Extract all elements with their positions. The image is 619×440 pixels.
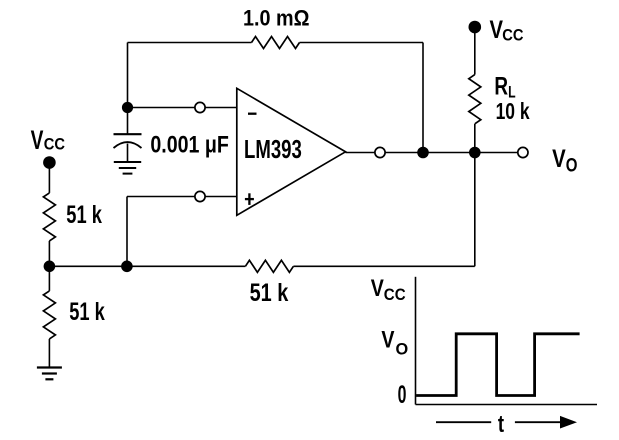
wire top feedback left segment — [128, 42, 252, 44]
minus sign inverting pin — [248, 113, 257, 115]
svg-text:51 k: 51 k — [66, 201, 102, 229]
node C junction dot — [121, 261, 133, 273]
svg-text:O: O — [566, 156, 578, 177]
node A junction dot — [122, 102, 133, 113]
svg-text:51 k: 51 k — [250, 279, 289, 307]
ref label RL — [494, 72, 515, 101]
wire inverting input — [128, 107, 237, 109]
terminal open circle inverting input — [195, 102, 205, 112]
wire right vertical up to output — [474, 153, 476, 267]
wire R2 to node B — [48, 241, 50, 266]
ground below capacitor — [114, 162, 141, 174]
wire RL to output node — [474, 124, 476, 153]
wire non-inverting input — [127, 196, 237, 198]
power VCC right — [469, 16, 524, 45]
ground below R3 — [37, 368, 62, 380]
resistor RL 10 k — [469, 75, 481, 124]
wire top feedback right segment — [300, 42, 424, 44]
capacitor C1 0.001 uF — [114, 134, 142, 161]
time axis left line — [436, 421, 491, 423]
svg-text:V: V — [490, 16, 504, 44]
wire node A to capacitor — [127, 108, 129, 134]
resistor R1 1.0 mOhm feedback — [252, 37, 300, 49]
svg-text:51 k: 51 k — [69, 298, 105, 326]
svg-text:V: V — [31, 125, 44, 155]
svg-text:t: t — [498, 411, 504, 438]
svg-text:1.0 mΩ: 1.0 mΩ — [243, 6, 310, 31]
plus sign non-inverting pin — [245, 193, 254, 205]
graph axis label VCC — [371, 275, 406, 304]
power VCC left — [31, 125, 65, 169]
wire output — [346, 152, 523, 154]
svg-text:V: V — [552, 145, 566, 173]
wire feedback vertical drop — [422, 43, 424, 153]
time axis arrow — [515, 416, 577, 429]
resistor R2 51 k upper — [43, 193, 55, 241]
node D feedback junction dot — [417, 147, 429, 159]
wire R3 to ground — [48, 339, 50, 367]
resistor R3 51 k lower — [43, 291, 55, 339]
svg-text:CC: CC — [502, 26, 523, 45]
graph x-axis — [416, 404, 598, 406]
svg-text:CC: CC — [384, 285, 406, 304]
wire bottom rail left segment — [49, 265, 245, 267]
waveform square wave — [416, 334, 579, 396]
svg-text:CC: CC — [44, 135, 65, 154]
net label VO — [552, 145, 577, 176]
svg-text:V: V — [371, 275, 384, 302]
svg-text:0: 0 — [398, 381, 407, 409]
wire node B to R3 — [48, 266, 50, 291]
svg-text:R: R — [494, 72, 508, 100]
svg-text:O: O — [396, 340, 409, 359]
node E output junction dot — [469, 147, 481, 159]
op-amp U1 LM393 — [237, 88, 346, 215]
svg-text:0.001 μF: 0.001 μF — [150, 132, 229, 159]
wire plus input down to bottom rail — [126, 197, 128, 267]
svg-text:V: V — [381, 327, 394, 354]
wire VCC to RL — [474, 27, 476, 75]
svg-text:10 k: 10 k — [496, 98, 530, 124]
graph y-axis — [415, 277, 417, 405]
graph axis label VO — [381, 327, 408, 359]
svg-text:LM393: LM393 — [244, 136, 302, 164]
wire VCC to R2 — [48, 163, 50, 193]
terminal open circle non-inverting input — [195, 191, 205, 201]
wire bottom rail right segment — [293, 265, 474, 267]
wire from node A up to feedback — [127, 43, 129, 108]
terminal open circle op-amp output — [375, 147, 385, 157]
terminal open circle VO — [518, 147, 528, 157]
node B junction dot — [44, 261, 56, 273]
resistor R4 51 k bottom — [245, 260, 293, 272]
